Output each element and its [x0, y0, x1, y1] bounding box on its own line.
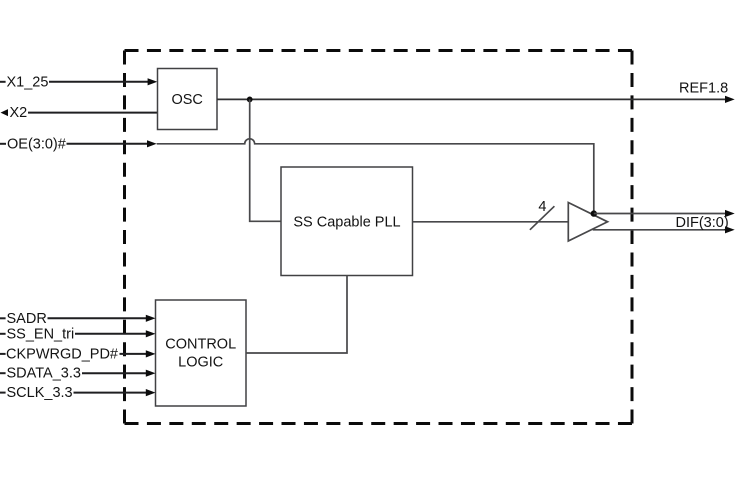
svg-text:SADR: SADR	[7, 311, 47, 327]
svg-text:REF1.8: REF1.8	[679, 81, 728, 97]
block SS Capable PLL	[281, 167, 413, 276]
wire OSC output / REF1.8 net	[217, 96, 735, 103]
wire PLL output bus to buffer	[413, 221, 569, 223]
svg-text:LOGIC: LOGIC	[178, 355, 223, 371]
block OSC	[158, 69, 218, 130]
svg-text:SCLK_3.3: SCLK_3.3	[7, 385, 73, 401]
wire X2 output	[1, 109, 158, 116]
wire CKPWRGD_PD# input	[0, 350, 156, 357]
svg-text:SS_EN_tri: SS_EN_tri	[7, 326, 75, 342]
svg-text:SS Capable PLL: SS Capable PLL	[293, 214, 400, 230]
svg-text:OSC: OSC	[171, 92, 202, 108]
svg-text:OE(3:0)#: OE(3:0)#	[7, 136, 66, 152]
wire X1_25 input	[0, 78, 157, 85]
svg-text:4: 4	[538, 199, 546, 215]
junction dot (OSC out to PLL feed)	[247, 97, 253, 103]
svg-text:CONTROL: CONTROL	[165, 336, 236, 352]
block CONTROL LOGIC	[156, 300, 247, 406]
wire OE enable run (hop over PLL feed, down to buffer output node)	[157, 139, 594, 214]
svg-text:DIF(3:0): DIF(3:0)	[676, 215, 729, 231]
wire SADR input	[0, 315, 156, 322]
svg-text:X1_25: X1_25	[7, 74, 49, 90]
wire DIF true line	[594, 210, 735, 217]
wire PLL feed (junction down, into PLL input)	[250, 99, 281, 221]
wire SS_EN_tri input	[0, 330, 156, 337]
chip boundary (dashed)	[125, 51, 633, 424]
wire OE(3:0)# input	[0, 140, 157, 147]
wire SDATA_3.3 input	[0, 370, 156, 377]
junction dot (enable meets DIF true line)	[591, 210, 597, 216]
svg-text:X2: X2	[10, 105, 28, 121]
wire SCLK_3.3 input	[0, 389, 156, 396]
bus width slash	[530, 206, 555, 230]
wire CONTROL LOGIC to PLL	[246, 276, 347, 354]
svg-text:CKPWRGD_PD#: CKPWRGD_PD#	[6, 346, 118, 362]
svg-text:SDATA_3.3: SDATA_3.3	[7, 366, 81, 382]
wire DIF complement line	[593, 226, 735, 233]
output buffer (triangle)	[568, 203, 607, 242]
